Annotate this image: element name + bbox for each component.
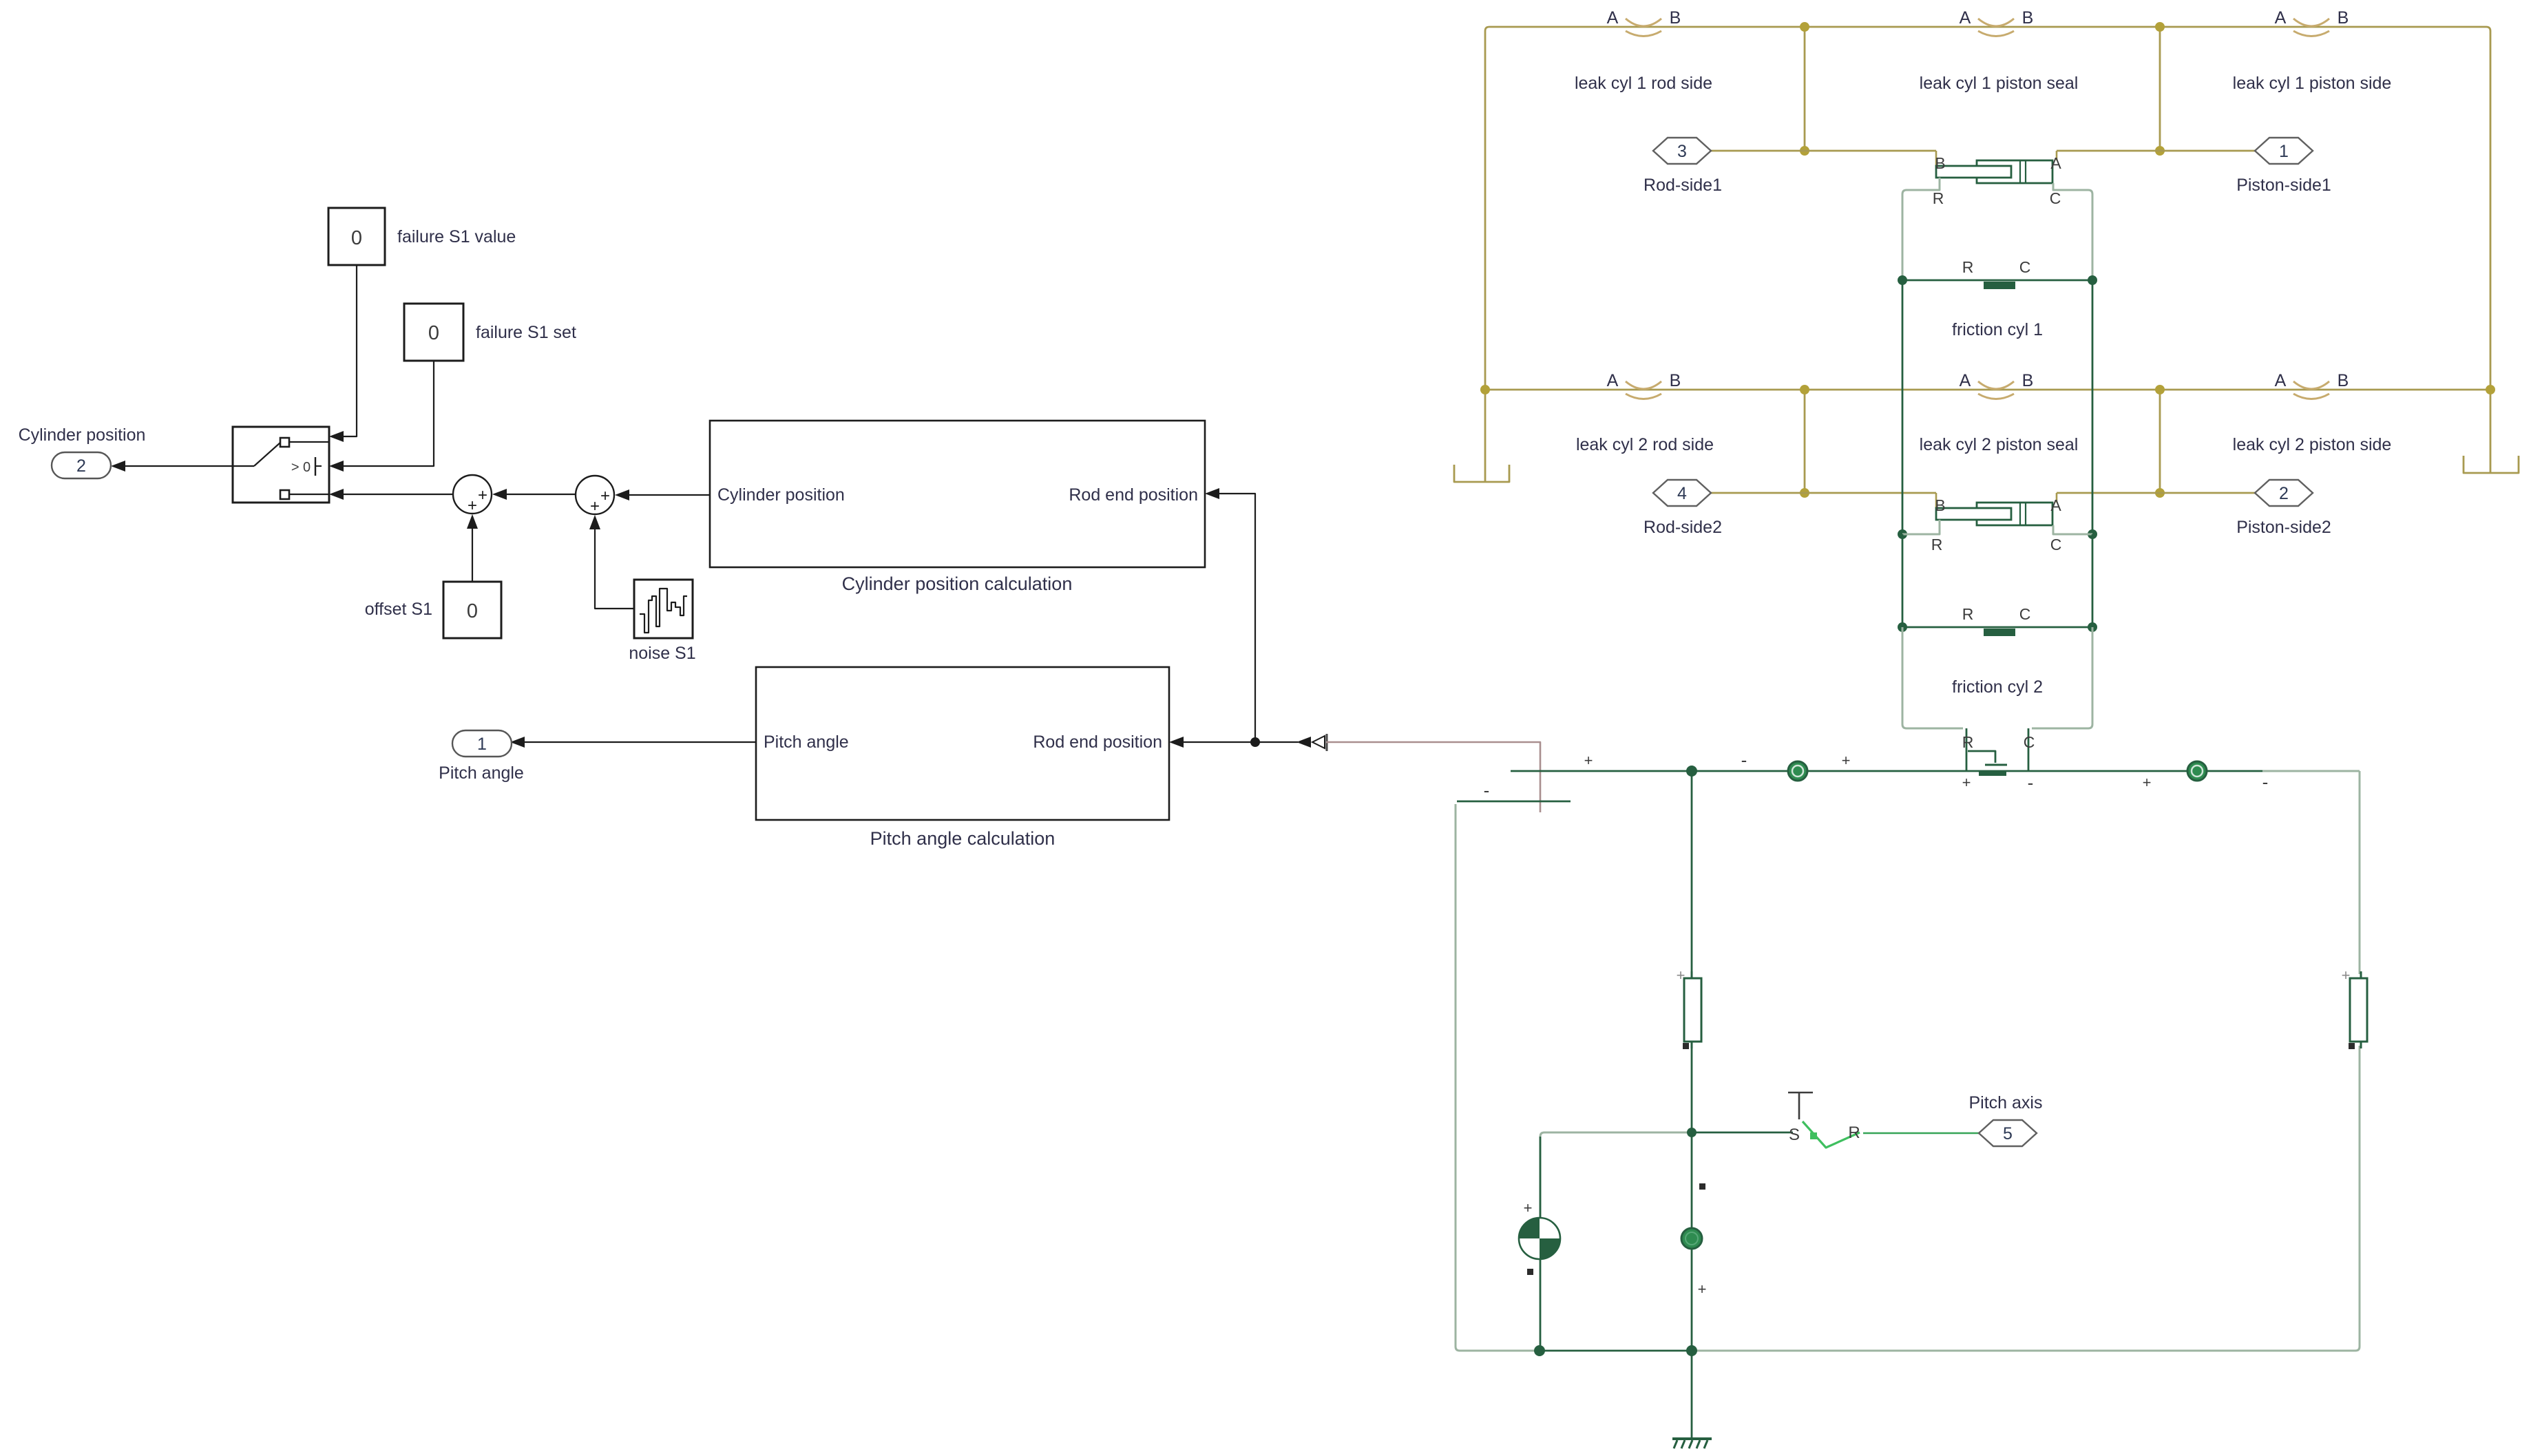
subsystem Pitch angle calculation — [756, 667, 1169, 849]
stub row1 right — [2155, 22, 2165, 156]
gravity mass circle — [1519, 1199, 1560, 1275]
hydraulic top supply line — [1485, 27, 2490, 481]
svg-text:2: 2 — [2279, 484, 2289, 503]
hydraulic row 2 line — [1480, 385, 2495, 394]
minus mark main line — [1741, 750, 1747, 770]
left sage vertical — [1456, 804, 1460, 1351]
svg-text:0: 0 — [428, 322, 439, 344]
svg-text:Cylinder position: Cylinder position — [19, 425, 146, 445]
svg-text:friction cyl 2: friction cyl 2 — [1952, 677, 2043, 697]
svg-text:Piston-side2: Piston-side2 — [2236, 518, 2331, 537]
pin C to main line — [2024, 728, 2035, 771]
svg-text:R: R — [1962, 733, 1974, 751]
port 1 Piston-side1 — [2236, 138, 2331, 195]
cylinder 1 R C pins — [1902, 178, 2092, 277]
mid vertical lower — [1692, 1046, 1706, 1351]
svg-text:R: R — [1962, 605, 1974, 623]
svg-text:-: - — [2262, 772, 2269, 792]
leak cyl 1 piston seal valve — [1920, 8, 2079, 93]
hydraulic cylinder 2 — [1935, 493, 2061, 525]
signal converter arrows — [1255, 734, 1327, 751]
friction cyl 2 element — [1898, 605, 2097, 697]
svg-text:A: A — [2050, 496, 2061, 514]
svg-text:A: A — [1607, 371, 1619, 390]
leak cyl 1 rod side valve — [1575, 8, 1712, 93]
leak cyl 2 piston seal valve — [1920, 371, 2079, 454]
wire noise S1 to sum 2 — [589, 515, 634, 609]
friction cyl 2 enclosure — [1902, 627, 2092, 728]
svg-text:Pitch axis: Pitch axis — [1969, 1093, 2043, 1112]
svg-text:> 0: > 0 — [291, 460, 311, 475]
outport 1 Pitch angle — [439, 730, 524, 783]
svg-text:R: R — [1933, 189, 1944, 207]
bottom mechanical line — [1460, 1345, 2355, 1356]
svg-text:Cylinder position: Cylinder position — [717, 485, 845, 505]
motion sensor left — [1457, 752, 1593, 801]
svg-text:B: B — [1935, 154, 1945, 172]
sensor circle 1 — [1788, 761, 1807, 781]
plus mark before sensor 2 — [2143, 774, 2152, 791]
svg-text:+: + — [590, 497, 600, 516]
svg-text:A: A — [1607, 8, 1619, 28]
noise S1 block — [629, 580, 695, 663]
svg-text:C: C — [2050, 536, 2062, 553]
svg-text:leak cyl 2 piston side: leak cyl 2 piston side — [2233, 435, 2392, 454]
leak cyl 1 piston side valve — [2233, 8, 2392, 93]
svg-text:failure S1 set: failure S1 set — [476, 323, 576, 342]
ground wire — [1691, 1351, 1693, 1439]
svg-text:B: B — [1670, 371, 1681, 390]
svg-text:Pitch angle: Pitch angle — [439, 763, 524, 783]
svg-text:leak cyl 2 piston seal: leak cyl 2 piston seal — [1920, 435, 2079, 454]
svg-text:R: R — [1931, 536, 1943, 553]
main mechanical line — [1511, 770, 2360, 772]
outport 2 Cylinder position — [19, 425, 146, 478]
friction cyl 1 element — [1898, 258, 2097, 339]
damper at R pin — [1962, 751, 2034, 793]
svg-text:B: B — [2022, 8, 2034, 28]
svg-text:Rod-side2: Rod-side2 — [1643, 518, 1722, 537]
svg-text:4: 4 — [1677, 484, 1687, 503]
svg-text:Rod end position: Rod end position — [1033, 732, 1162, 752]
svg-text:offset S1: offset S1 — [365, 600, 432, 619]
rail left row1-row2 — [1898, 280, 1907, 539]
svg-text:leak cyl 1 piston side: leak cyl 1 piston side — [2233, 74, 2392, 93]
junction main line — [1686, 766, 1697, 777]
svg-text:+: + — [600, 487, 610, 505]
svg-text:0: 0 — [351, 227, 362, 249]
rotational spring right — [2342, 967, 2367, 1049]
constant block offset S1 — [365, 582, 501, 638]
node dot mid vertical — [1681, 1228, 1702, 1249]
svg-text:5: 5 — [2003, 1124, 2013, 1143]
port 2 Piston-side2 — [2236, 480, 2331, 537]
svg-text:C: C — [2024, 733, 2035, 751]
leak cyl 2 piston side valve — [2233, 371, 2392, 454]
svg-text:leak cyl 2 rod side: leak cyl 2 rod side — [1576, 435, 1714, 454]
svg-text:B: B — [2022, 371, 2034, 390]
wire rod end position into cylinder block — [1205, 488, 1255, 742]
svg-text:3: 3 — [1677, 142, 1687, 161]
tank right — [2464, 456, 2519, 473]
rail left row2-friction2 — [1902, 534, 1904, 627]
stub row2 right — [2155, 385, 2165, 498]
leak cyl 2 rod side valve — [1576, 371, 1714, 454]
mid vertical upper — [1691, 771, 1693, 973]
ports row 2 line — [1711, 492, 2255, 494]
svg-text:R: R — [1848, 1123, 1860, 1142]
constant block failure S1 set — [404, 304, 576, 361]
svg-text:+: + — [2143, 774, 2152, 791]
rotational spring S R — [1788, 1093, 1860, 1148]
stub row2 left — [1800, 385, 1809, 498]
svg-text:A: A — [1960, 371, 1971, 390]
svg-text:Pitch angle: Pitch angle — [764, 732, 849, 752]
port 3 Rod-side1 — [1643, 138, 1722, 195]
svg-text:Cylinder position calculation: Cylinder position calculation — [842, 573, 1073, 594]
constant block failure S1 value — [328, 208, 516, 265]
svg-text:Piston-side1: Piston-side1 — [2236, 176, 2331, 195]
sensor circle 2 — [2187, 761, 2207, 781]
svg-text:C: C — [2019, 258, 2031, 276]
svg-text:B: B — [2338, 371, 2349, 390]
svg-text:-: - — [2028, 772, 2034, 793]
svg-text:leak cyl 1 rod side: leak cyl 1 rod side — [1575, 74, 1712, 93]
svg-text:C: C — [2050, 189, 2061, 207]
ground symbol — [1672, 1439, 1712, 1448]
port 4 Rod-side2 — [1643, 480, 1722, 537]
rail right row1-row2 — [2088, 280, 2097, 539]
svg-text:B: B — [2338, 8, 2349, 28]
stub row1 left — [1800, 22, 1809, 156]
svg-text:B: B — [1935, 496, 1945, 514]
wire pitch block to outport 1 — [510, 737, 756, 748]
svg-text:C: C — [2019, 605, 2031, 623]
wire junction to spring S — [1692, 1132, 1793, 1134]
svg-text:1: 1 — [477, 735, 487, 754]
svg-text:2: 2 — [76, 456, 86, 476]
wire offset S1 to sum 1 — [467, 514, 478, 582]
svg-text:1: 1 — [2279, 142, 2289, 161]
svg-text:+: + — [1677, 967, 1685, 984]
svg-text:+: + — [1584, 752, 1593, 769]
hydraulic cylinder 1 — [1935, 151, 2061, 183]
wire spring to port 5 — [1863, 1132, 1980, 1135]
svg-text:Rod-side1: Rod-side1 — [1643, 176, 1722, 195]
svg-text:leak cyl 1 piston seal: leak cyl 1 piston seal — [1920, 74, 2079, 93]
svg-text:+: + — [1962, 774, 1971, 791]
svg-text:+: + — [1524, 1199, 1533, 1216]
svg-text:-: - — [1741, 750, 1747, 770]
svg-text:failure S1 value: failure S1 value — [397, 227, 516, 246]
right sage vertical — [2355, 771, 2360, 1351]
wire junction to pitch block input — [1169, 737, 1260, 748]
svg-text:B: B — [1670, 8, 1681, 28]
tank left — [1454, 465, 1509, 482]
svg-text:+: + — [1842, 752, 1851, 769]
svg-text:S: S — [1789, 1126, 1800, 1144]
cylinder 2 R C pins — [1902, 520, 2092, 553]
sum block 2 — [576, 476, 710, 516]
svg-text:+: + — [478, 486, 487, 505]
wire switch to outport 2 — [111, 461, 233, 472]
mass branch wire — [1540, 1128, 1697, 1351]
svg-text:friction cyl 1: friction cyl 1 — [1952, 320, 2043, 339]
wire failure S1 value to switch — [329, 265, 357, 442]
rotational spring mid — [1677, 967, 1701, 1049]
svg-text:A: A — [2275, 371, 2287, 390]
sum block 1 — [329, 475, 575, 515]
svg-text:+: + — [468, 496, 477, 515]
svg-text:+: + — [1698, 1280, 1707, 1298]
svg-text:Rod end position: Rod end position — [1069, 485, 1198, 505]
switch block — [233, 427, 329, 503]
physical signal wire to sensor — [1326, 742, 1540, 812]
ports row 1 line — [1711, 150, 2255, 152]
svg-text:noise S1: noise S1 — [629, 644, 695, 663]
pin R to main line — [1962, 728, 1974, 771]
minus mark after sensor 2 — [2262, 772, 2269, 792]
svg-text:+: + — [2342, 967, 2351, 984]
subsystem Cylinder position calculation — [710, 421, 1205, 594]
svg-text:A: A — [2275, 8, 2287, 28]
plus mark after sensor 1 — [1842, 752, 1851, 769]
svg-text:0: 0 — [467, 600, 478, 622]
wire failure S1 set to switch — [329, 361, 434, 472]
svg-text:R: R — [1962, 258, 1974, 276]
svg-text:A: A — [1960, 8, 1971, 28]
svg-text:Pitch angle calculation: Pitch angle calculation — [870, 828, 1056, 849]
rail right row2-friction2 — [2092, 534, 2094, 627]
port 5 Pitch axis — [1969, 1093, 2043, 1146]
svg-text:-: - — [1484, 780, 1490, 801]
svg-text:A: A — [2050, 154, 2061, 172]
